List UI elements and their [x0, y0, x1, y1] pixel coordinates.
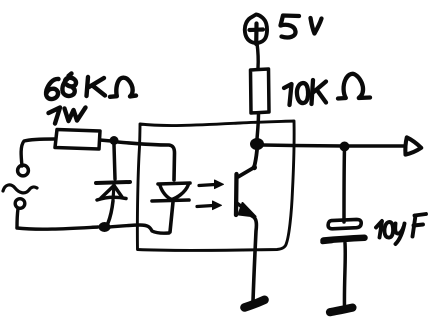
- digit 5: [281, 16, 300, 38]
- tick above 8: [69, 74, 72, 77]
- light arrow 1 head: [215, 180, 224, 189]
- wire: 5V to resistor R2: [257, 43, 258, 68]
- 5V supply symbol outline: [245, 15, 267, 43]
- letter mu: [395, 224, 403, 234]
- output arrow triangle: [405, 137, 421, 154]
- ac source terminal top: [18, 165, 29, 176]
- bottom rail wire right of node B: [110, 225, 169, 233]
- digit 0: [384, 222, 393, 238]
- label: 10uF text: [376, 214, 426, 244]
- ground (emitter): [245, 300, 265, 308]
- transistor Q1 emitter stroke: [238, 204, 251, 214]
- letter omega: [338, 74, 370, 99]
- transistor Q1 collector stroke: [237, 150, 257, 178]
- wire: resistor R1 to node A: [100, 140, 111, 141]
- capacitor C1 top plate: [328, 219, 361, 228]
- letter V: [311, 18, 322, 34]
- label: 1W text: [49, 108, 86, 124]
- light arrow 1 shaft: [199, 185, 215, 186]
- label: 10K ohm text: [284, 74, 370, 105]
- node D junction dot (capacitor branch): [340, 142, 350, 152]
- 5V supply plus vertical / wire down: [254, 24, 258, 45]
- LED D2 anode bar: [158, 183, 190, 184]
- node C junction dot (collector node): [250, 138, 264, 150]
- wire: resistor R2 to node C: [257, 113, 259, 139]
- digit 1: [49, 108, 61, 124]
- resistor R1 68K body: [55, 130, 100, 150]
- digit 1: [284, 84, 292, 105]
- light arrow 2 shaft: [197, 206, 213, 207]
- node A junction dot: [110, 136, 119, 145]
- capacitor C1 bottom wire: [343, 243, 347, 309]
- digit 8: [62, 78, 76, 96]
- diode D1 center wire: [113, 185, 114, 200]
- diode D1 cathode bar: [96, 182, 130, 183]
- ac source terminal bottom: [15, 199, 25, 209]
- diode D1 triangle: [101, 186, 122, 199]
- ac source tilde: [3, 185, 37, 193]
- node B junction dot: [99, 222, 111, 232]
- letter K: [87, 77, 89, 96]
- digit 1: [376, 221, 382, 238]
- wire: node A down to diode D1: [114, 145, 115, 179]
- output wire: [263, 145, 404, 146]
- transistor Q1 base bar: [234, 174, 239, 215]
- letter W: [65, 108, 86, 122]
- wire: top terminal to resistor R1: [21, 139, 54, 166]
- ground (capacitor): [330, 308, 353, 313]
- LED D2 triangle (cup): [160, 185, 188, 200]
- label: 5V text: [281, 16, 322, 38]
- capacitor C1 bottom plate: [324, 238, 365, 241]
- resistor R2 10K body: [251, 69, 270, 113]
- optocoupler U1 box: [137, 121, 294, 251]
- emitter wire to ground: [252, 216, 256, 301]
- light arrow 2 head: [213, 201, 222, 210]
- label: 68 K ohm text: [46, 74, 136, 100]
- diode D1 triangle base: [97, 197, 126, 200]
- LED D2 wire to bottom rail: [170, 202, 173, 232]
- capacitor C1 bottom plate left end: [323, 241, 333, 242]
- diode D1 wire to node B: [108, 201, 113, 223]
- transistor Q1 collector joint blob: [252, 165, 257, 170]
- LED D2 cathode bar: [152, 200, 189, 201]
- 5V supply plus horizontal: [250, 27, 264, 32]
- wire: bottom terminal down: [17, 209, 18, 228]
- transistor Q1 emitter arrowhead: [239, 203, 256, 217]
- letter F: [413, 216, 416, 237]
- letter K: [312, 80, 314, 104]
- letter omega: [110, 78, 136, 97]
- wire: node A to LED anode (top rail, turns down): [118, 142, 175, 180]
- digit 6: [46, 79, 58, 99]
- capacitor C1 top wire: [342, 148, 346, 222]
- digit 0: [297, 83, 308, 103]
- bottom rail wire: [17, 227, 98, 229]
